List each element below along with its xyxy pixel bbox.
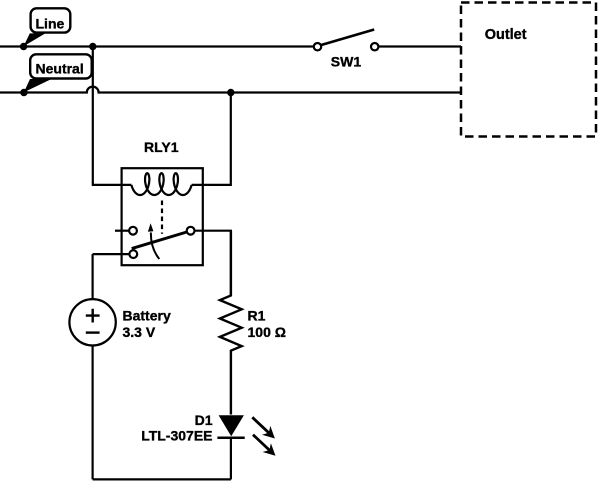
wire Neutral with hop over vertical [0,87,461,93]
svg-text:RLY1: RLY1 [144,139,179,155]
relay RLY1 dashed actuation line [161,201,163,234]
diode D1 light arrow 2 [253,435,269,450]
svg-text:SW1: SW1 [331,54,362,70]
switch SW1 left terminal [314,43,321,50]
svg-text:Neutral: Neutral [36,61,84,77]
wire relay common down to battery [91,254,93,299]
wire relay common to battery branch [93,253,130,255]
relay RLY1 NC terminal circle [129,227,137,235]
battery plus sign [86,309,100,323]
svg-text:100 Ω: 100 Ω [248,324,286,340]
diode D1 light arrow 1 [252,417,268,433]
svg-text:Outlet: Outlet [485,27,527,43]
svg-text:Line: Line [36,15,65,31]
battery V1 circle [69,299,115,345]
wire Line to relay coil left [93,47,132,185]
relay RLY1 NC stub [115,230,129,232]
wire Line left segment [0,45,314,47]
resistor R1 zigzag [220,231,242,415]
svg-text:R1: R1 [248,308,266,324]
diode D1 cathode bar [217,437,244,440]
callout Line box [24,8,71,46]
battery minus sign [86,331,100,333]
relay RLY1 NO terminal circle [187,227,195,235]
node Line anchor dot [20,43,27,50]
wire Neutral junction to relay coil right [192,93,231,185]
node Neutral junction dot [227,89,234,96]
wire battery to bottom [91,346,93,480]
callout Neutral box [24,54,92,92]
diode D1 LED triangle [219,415,244,436]
svg-text:LTL-307EE: LTL-307EE [141,427,212,443]
relay RLY1 actuation arrow [151,233,159,260]
wire bottom to LED cathode [230,438,232,480]
node Neutral anchor dot [20,89,27,96]
switch SW1 blade [321,30,374,46]
relay RLY1 common terminal circle [129,250,137,258]
node Line junction dot [89,43,96,50]
relay RLY1 blade [132,232,187,249]
svg-text:Battery: Battery [123,308,171,324]
svg-text:D1: D1 [195,412,213,428]
wire bottom [93,478,231,480]
switch SW1 right terminal [371,43,378,50]
relay RLY1 box [122,168,203,265]
relay RLY1 coil [131,173,191,195]
outlet dashed box [461,3,596,137]
wire Line right segment [378,45,461,47]
svg-text:3.3 V: 3.3 V [123,324,156,340]
wire relay NO terminal to R1 branch [195,231,231,296]
